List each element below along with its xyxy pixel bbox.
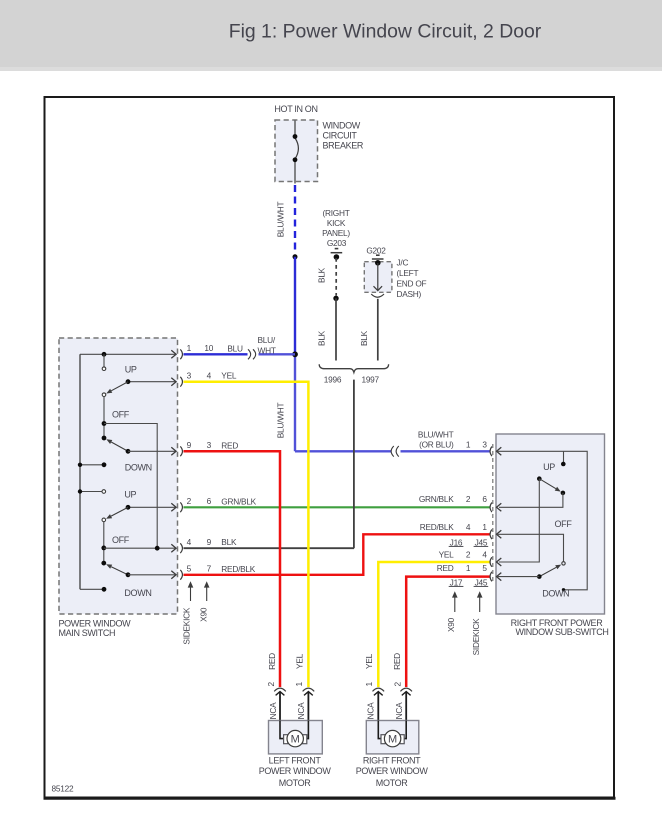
svg-text:UP: UP bbox=[124, 490, 136, 500]
svg-text:DOWN: DOWN bbox=[124, 588, 151, 598]
svg-text:(LEFT: (LEFT bbox=[397, 268, 419, 278]
node branch BLK bbox=[101, 546, 106, 551]
label J16 underlined bbox=[449, 537, 464, 547]
switch row wire to pin 5 bbox=[128, 574, 176, 576]
lever arrowhead (sub lower) bbox=[555, 565, 561, 570]
wire GRN/BLK row bbox=[184, 506, 491, 508]
label (RIGHT KICK PANEL) G203 bbox=[322, 208, 350, 248]
motor M1 symbol bbox=[287, 730, 303, 746]
svg-text:YEL: YEL bbox=[364, 653, 374, 669]
switch row wire to pin 2 bbox=[128, 506, 176, 508]
wire BLU/WHT row after break bbox=[259, 353, 296, 355]
svg-text:CIRCUIT: CIRCUIT bbox=[323, 130, 358, 140]
up contact 2 (open) bbox=[102, 490, 106, 494]
wire RED/BLK row from main switch bbox=[184, 534, 491, 575]
wire break symbol )) bbox=[248, 349, 256, 359]
svg-text:4: 4 bbox=[482, 550, 487, 560]
title bar bbox=[0, 0, 662, 67]
svg-text:2: 2 bbox=[266, 681, 276, 686]
wire BLK dashed below G203 bbox=[335, 258, 337, 296]
svg-text:X90: X90 bbox=[446, 617, 456, 632]
svg-text:9: 9 bbox=[187, 440, 192, 450]
label J45 lower underlined bbox=[474, 577, 489, 587]
svg-text:4: 4 bbox=[207, 370, 212, 380]
connector arrow X90 (left) bbox=[204, 581, 210, 601]
svg-text:3: 3 bbox=[187, 370, 192, 380]
svg-text:1: 1 bbox=[364, 681, 374, 686]
down contact row (switch 1) bbox=[80, 464, 104, 466]
svg-text:(RIGHT: (RIGHT bbox=[322, 208, 349, 218]
svg-text:RED/BLK: RED/BLK bbox=[221, 564, 255, 574]
svg-text:M: M bbox=[291, 734, 300, 746]
label RIGHT FRONT POWER WINDOW MOTOR bbox=[356, 756, 429, 788]
svg-text:OFF: OFF bbox=[555, 519, 573, 529]
wire BLU row from main switch bbox=[184, 353, 248, 355]
lever arm (switch 1 up) bbox=[111, 382, 128, 391]
wire blue solid vertical lower bbox=[294, 354, 296, 451]
J/C connector cup bbox=[371, 294, 384, 297]
svg-text:5: 5 bbox=[187, 564, 192, 574]
svg-text:9: 9 bbox=[207, 537, 212, 547]
svg-text:2: 2 bbox=[187, 496, 192, 506]
wire BLU/WHT horizontal after break bbox=[401, 450, 491, 452]
svg-text:5: 5 bbox=[482, 563, 487, 573]
year selection brace bbox=[319, 364, 388, 372]
svg-text:END OF: END OF bbox=[397, 279, 427, 289]
wire YEL to sub-switch bbox=[378, 562, 490, 687]
motor connector (left motor yel) bbox=[303, 688, 315, 721]
up contact row (switch 2) bbox=[80, 491, 102, 493]
svg-text:YEL: YEL bbox=[295, 653, 305, 669]
svg-text:1: 1 bbox=[482, 522, 487, 532]
svg-text:NCA: NCA bbox=[268, 702, 278, 719]
sub-switch connector arcs bbox=[490, 447, 492, 582]
sub-switch internal feed wire bbox=[497, 451, 587, 590]
svg-text:BLK: BLK bbox=[317, 330, 327, 346]
right front power window sub-switch box bbox=[496, 434, 605, 614]
svg-text:RED: RED bbox=[437, 563, 454, 573]
ground G203 bbox=[331, 249, 343, 253]
svg-text:LEFT FRONT: LEFT FRONT bbox=[269, 756, 322, 766]
motor connector (right motor red) bbox=[400, 688, 412, 721]
switch row wire to pin 4 bbox=[104, 547, 176, 549]
svg-text:1: 1 bbox=[466, 439, 471, 449]
svg-text:POWER WINDOW: POWER WINDOW bbox=[259, 766, 332, 776]
svg-text:MAIN SWITCH: MAIN SWITCH bbox=[59, 628, 116, 638]
svg-text:J45: J45 bbox=[475, 577, 488, 587]
mid contact 2 (open) bbox=[102, 518, 106, 522]
label LEFT FRONT POWER WINDOW MOTOR bbox=[259, 756, 332, 788]
svg-text:X90: X90 bbox=[198, 607, 208, 622]
label J17 underlined bbox=[449, 577, 464, 587]
connector arrow X90 (right) bbox=[452, 591, 458, 612]
label BLU/WHT (OR BLU) bbox=[418, 430, 454, 450]
svg-text:SIDEKICK: SIDEKICK bbox=[471, 618, 481, 655]
wire mid contact to GRN row bbox=[499, 493, 563, 507]
svg-text:6: 6 bbox=[482, 494, 487, 504]
svg-text:2: 2 bbox=[393, 681, 403, 686]
svg-text:OFF: OFF bbox=[112, 410, 130, 420]
main switch bus wire bbox=[79, 354, 81, 589]
svg-text:2: 2 bbox=[466, 494, 471, 504]
node lever pivot RED/BLK bbox=[126, 572, 131, 577]
breaker node upper bbox=[293, 134, 298, 139]
label J45 upper underlined bbox=[474, 537, 489, 547]
svg-text:6: 6 bbox=[207, 496, 212, 506]
ground G202 bbox=[372, 255, 384, 259]
svg-text:10: 10 bbox=[204, 343, 213, 353]
svg-text:DOWN: DOWN bbox=[125, 463, 152, 473]
svg-text:SIDEKICK: SIDEKICK bbox=[181, 607, 191, 644]
node up contact (sub) bbox=[561, 462, 566, 467]
svg-text:M: M bbox=[388, 734, 397, 746]
connector arrow SIDEKICK (left) bbox=[188, 581, 194, 601]
right front power window motor box bbox=[366, 721, 419, 754]
wire blue solid vertical upper bbox=[294, 257, 296, 355]
svg-text:4: 4 bbox=[466, 522, 471, 532]
wire RED row from main switch bbox=[184, 451, 281, 687]
node G202 bbox=[375, 260, 381, 266]
left motor brackets bbox=[284, 735, 307, 744]
label BLU/WHT at break bbox=[258, 335, 276, 356]
svg-text:NCA: NCA bbox=[296, 702, 306, 719]
up contact stem (sub) bbox=[563, 451, 565, 462]
svg-text:WINDOW SUB-SWITCH: WINDOW SUB-SWITCH bbox=[515, 627, 608, 637]
lever arm (switch 2 up) bbox=[111, 507, 128, 516]
lever arrowhead bbox=[106, 389, 112, 394]
svg-text:BLU/WHT: BLU/WHT bbox=[275, 403, 285, 439]
sub-switch connector arrows bbox=[497, 447, 502, 580]
svg-text:OFF: OFF bbox=[112, 535, 130, 545]
node lever pivot GRN bbox=[126, 505, 131, 510]
breaker node lower bbox=[293, 157, 298, 162]
right motor internal wires bbox=[378, 721, 406, 739]
mid contact (open) bbox=[102, 393, 106, 397]
svg-text:NCA: NCA bbox=[366, 702, 376, 719]
svg-text:J16: J16 bbox=[450, 537, 463, 547]
svg-text:RED: RED bbox=[267, 653, 277, 670]
svg-text:J/C: J/C bbox=[397, 258, 409, 268]
svg-text:KICK: KICK bbox=[327, 218, 346, 228]
circuit breaker box bbox=[275, 120, 318, 182]
svg-text:85122: 85122 bbox=[52, 784, 74, 794]
contact stem down 2 bbox=[103, 522, 105, 563]
svg-text:G203: G203 bbox=[327, 238, 347, 248]
node lever pivot (sub upper) bbox=[537, 476, 542, 481]
lever arm (sub lower) bbox=[539, 567, 556, 576]
wire break symbol (( bbox=[391, 446, 399, 457]
node down contact bbox=[102, 462, 107, 467]
svg-text:BLU: BLU bbox=[227, 344, 243, 354]
frame bottom thick edge bbox=[44, 797, 616, 800]
svg-text:UP: UP bbox=[125, 364, 137, 374]
svg-text:2: 2 bbox=[466, 550, 471, 560]
node switch feed bbox=[102, 352, 107, 357]
svg-text:YEL: YEL bbox=[439, 550, 455, 560]
wire BLK vertical from brace to BLK row bbox=[353, 380, 355, 549]
svg-text:1996: 1996 bbox=[324, 374, 342, 384]
svg-text:1: 1 bbox=[294, 681, 304, 686]
svg-text:PANEL): PANEL) bbox=[322, 228, 350, 238]
label POWER WINDOW MAIN SWITCH bbox=[59, 618, 132, 638]
svg-text:G202: G202 bbox=[366, 246, 386, 256]
junction connector J/C box bbox=[364, 262, 392, 293]
node on BLK wire bbox=[333, 296, 338, 301]
node branch OFF bbox=[102, 421, 107, 426]
connector arrow SIDEKICK (right) bbox=[477, 591, 483, 612]
node junction blue main bbox=[292, 351, 298, 357]
svg-text:GRN/BLK: GRN/BLK bbox=[221, 496, 256, 506]
motor connector (right motor yel) bbox=[373, 688, 385, 721]
svg-text:BLK: BLK bbox=[359, 330, 369, 346]
node lever pivot YEL bbox=[126, 379, 131, 384]
svg-text:J17: J17 bbox=[450, 577, 463, 587]
lever arrowhead bbox=[106, 439, 112, 444]
wire YEL row from main switch bbox=[184, 382, 309, 687]
node lever pivot RED bbox=[126, 449, 131, 454]
wire RED row to pivot bbox=[497, 576, 540, 578]
label WINDOW CIRCUIT BREAKER bbox=[323, 121, 364, 151]
lever arm (sub upper) bbox=[539, 479, 556, 489]
svg-text:DASH): DASH) bbox=[397, 289, 422, 299]
svg-text:UP: UP bbox=[543, 462, 555, 472]
svg-text:(OR BLU): (OR BLU) bbox=[419, 439, 454, 449]
up contact stem bbox=[103, 354, 105, 367]
svg-text:MOTOR: MOTOR bbox=[376, 778, 408, 788]
wire BLU/WHT dashed vertical from breaker bbox=[294, 185, 296, 254]
wire pivot to YEL row bbox=[499, 479, 539, 562]
node lever contact lower 2 bbox=[101, 561, 106, 566]
svg-text:GRN/BLK: GRN/BLK bbox=[419, 494, 454, 504]
svg-text:RED/BLK: RED/BLK bbox=[420, 522, 454, 532]
node mid contact (sub) bbox=[561, 491, 566, 496]
J/C arrowhead bbox=[374, 286, 383, 290]
svg-text:J45: J45 bbox=[475, 537, 488, 547]
wire BLK solid to year brace (1997) bbox=[377, 299, 379, 361]
svg-text:RED: RED bbox=[221, 440, 238, 450]
contact stem down bbox=[103, 397, 105, 439]
node bus up2 bbox=[78, 489, 82, 493]
lower contact (open, sub) bbox=[562, 562, 565, 565]
svg-text:BLU/WHT: BLU/WHT bbox=[418, 430, 454, 440]
svg-text:WINDOW: WINDOW bbox=[323, 121, 361, 131]
label RIGHT FRONT POWER WINDOW SUB-SWITCH bbox=[511, 618, 609, 637]
svg-text:3: 3 bbox=[207, 440, 212, 450]
lever arrowhead (sub upper) bbox=[555, 487, 561, 492]
circuit breaker element bbox=[295, 121, 298, 184]
svg-text:1: 1 bbox=[187, 343, 192, 353]
wire BLK row bbox=[184, 547, 355, 549]
svg-text:BLK: BLK bbox=[221, 537, 237, 547]
motor M2 symbol bbox=[384, 730, 400, 746]
svg-text:BREAKER: BREAKER bbox=[323, 140, 364, 150]
svg-text:4: 4 bbox=[187, 537, 192, 547]
svg-text:POWER WINDOW: POWER WINDOW bbox=[59, 618, 132, 628]
switch row wire to pin 1 bbox=[80, 353, 176, 355]
power window main switch box bbox=[59, 338, 178, 614]
svg-text:RIGHT FRONT: RIGHT FRONT bbox=[363, 756, 421, 766]
svg-text:POWER WINDOW: POWER WINDOW bbox=[356, 766, 429, 776]
sub-switch connector dashed strip bbox=[492, 444, 494, 583]
lever arrowhead bbox=[106, 514, 112, 519]
left front power window motor box bbox=[269, 721, 323, 754]
svg-text:BLK: BLK bbox=[317, 267, 327, 283]
svg-text:HOT IN ON: HOT IN ON bbox=[274, 104, 317, 114]
J/C internal arrow wire bbox=[377, 263, 379, 290]
svg-text:DOWN: DOWN bbox=[542, 589, 569, 599]
svg-text:3: 3 bbox=[482, 439, 487, 449]
svg-text:YEL: YEL bbox=[221, 371, 237, 381]
node bus down bbox=[78, 463, 82, 467]
wire BLU/WHT horizontal to sub-switch bbox=[295, 450, 391, 452]
svg-text:NCA: NCA bbox=[394, 702, 404, 719]
wire BLK solid to year brace (1996) bbox=[335, 298, 337, 360]
svg-text:1997: 1997 bbox=[361, 374, 379, 384]
node G203 bbox=[334, 254, 340, 260]
down contact row (switch 2) bbox=[80, 588, 104, 590]
label J/C (LEFT END OF DASH) bbox=[397, 258, 427, 300]
switch row wire to pin 3 bbox=[128, 381, 176, 383]
svg-text:7: 7 bbox=[207, 564, 212, 574]
svg-text:BLU/WHT: BLU/WHT bbox=[275, 202, 285, 238]
lever arm (switch 1 down) bbox=[111, 442, 128, 451]
motor connector (left motor red) bbox=[274, 688, 286, 721]
svg-text:RED: RED bbox=[392, 653, 402, 670]
up contact (open) bbox=[102, 367, 106, 371]
node on blue wire bbox=[293, 254, 298, 259]
main switch connector arrows bbox=[171, 350, 176, 579]
svg-text:Fig 1: Power Window Circuit, 2: Fig 1: Power Window Circuit, 2 Door bbox=[229, 20, 542, 42]
wire RED to sub-switch bbox=[406, 577, 490, 687]
node BLK bus join bbox=[155, 546, 160, 551]
left motor internal wires bbox=[280, 721, 308, 739]
lever arrowhead bbox=[106, 564, 112, 569]
wire RED/BLK row to lower contact bbox=[497, 534, 564, 561]
svg-text:MOTOR: MOTOR bbox=[279, 778, 311, 788]
svg-text:1: 1 bbox=[466, 563, 471, 573]
svg-text:BLU/: BLU/ bbox=[258, 335, 276, 345]
frame border bbox=[45, 97, 615, 798]
node lever pivot (sub lower) bbox=[537, 574, 542, 579]
branch wire to BLK bus bbox=[104, 424, 157, 549]
lever arm (switch 2 down) bbox=[111, 567, 128, 575]
svg-text:WHT: WHT bbox=[258, 346, 276, 356]
node lever contact lower bbox=[102, 436, 107, 441]
node down contact (sub) bbox=[562, 588, 565, 591]
main switch connector arcs bbox=[180, 349, 182, 579]
node down contact 2 bbox=[102, 587, 107, 592]
right motor brackets bbox=[381, 735, 404, 744]
switch row wire to pin 9 bbox=[128, 450, 176, 452]
